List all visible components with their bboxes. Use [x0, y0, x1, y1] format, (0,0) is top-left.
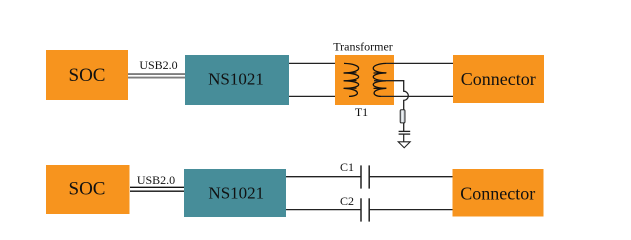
wire C2 to connector [369, 209, 452, 211]
wire NS1021 to C1 [286, 176, 361, 178]
SOC box U3 (bottom) [46, 165, 130, 214]
svg-text:Transformer: Transformer [333, 40, 393, 54]
svg-text:USB2.0: USB2.0 [139, 58, 177, 72]
capacitor C3 (snubber cap plates) [399, 130, 411, 132]
capacitor C1 [360, 165, 362, 188]
svg-text:C2: C2 [340, 194, 354, 208]
wire C1 to connector [369, 176, 452, 178]
wire transformer secondary bottom to connector [381, 95, 453, 97]
svg-text:C1: C1 [340, 160, 354, 174]
svg-text:NS1021: NS1021 [208, 183, 264, 202]
capacitor C2 [360, 198, 362, 221]
NS1021 box U2 (top) [185, 55, 289, 105]
svg-text:NS1021: NS1021 [208, 70, 264, 89]
svg-text:Connector: Connector [460, 183, 535, 203]
NS1021 box U4 (bottom) [184, 169, 286, 217]
USB2.0 double-line bus (top, gray) [128, 73, 185, 75]
svg-text:USB2.0: USB2.0 [137, 173, 175, 187]
wire NS1021 to C2 [286, 209, 361, 211]
Connector box J1 (top) [453, 55, 544, 103]
ground [398, 142, 410, 148]
transformer primary winding (left coil) [344, 63, 359, 96]
resistor R1 (vertical, center-tap snubber) [400, 110, 405, 123]
primary winding junction bars [344, 73, 357, 89]
svg-text:Connector: Connector [461, 69, 536, 89]
secondary winding junction bars [374, 73, 387, 89]
transformer T1 body [335, 55, 394, 105]
svg-text:SOC: SOC [69, 178, 106, 199]
USB2.0 double-line bus (bottom, black) [130, 186, 184, 188]
SOC box U1 (top) [46, 50, 128, 100]
wire capacitor to ground [403, 134, 405, 142]
wire NS1021 to transformer primary bottom [289, 95, 350, 97]
wire resistor to capacitor [403, 123, 405, 132]
transformer secondary winding (right coil) [373, 63, 386, 96]
svg-text:SOC: SOC [69, 65, 106, 86]
Connector box J2 (bottom) [453, 169, 544, 217]
wire NS1021 to transformer primary top [289, 62, 357, 64]
wire transformer secondary top to connector [386, 62, 453, 64]
wire center tap with hop over bottom wire [374, 81, 408, 110]
svg-text:T1: T1 [355, 105, 368, 119]
